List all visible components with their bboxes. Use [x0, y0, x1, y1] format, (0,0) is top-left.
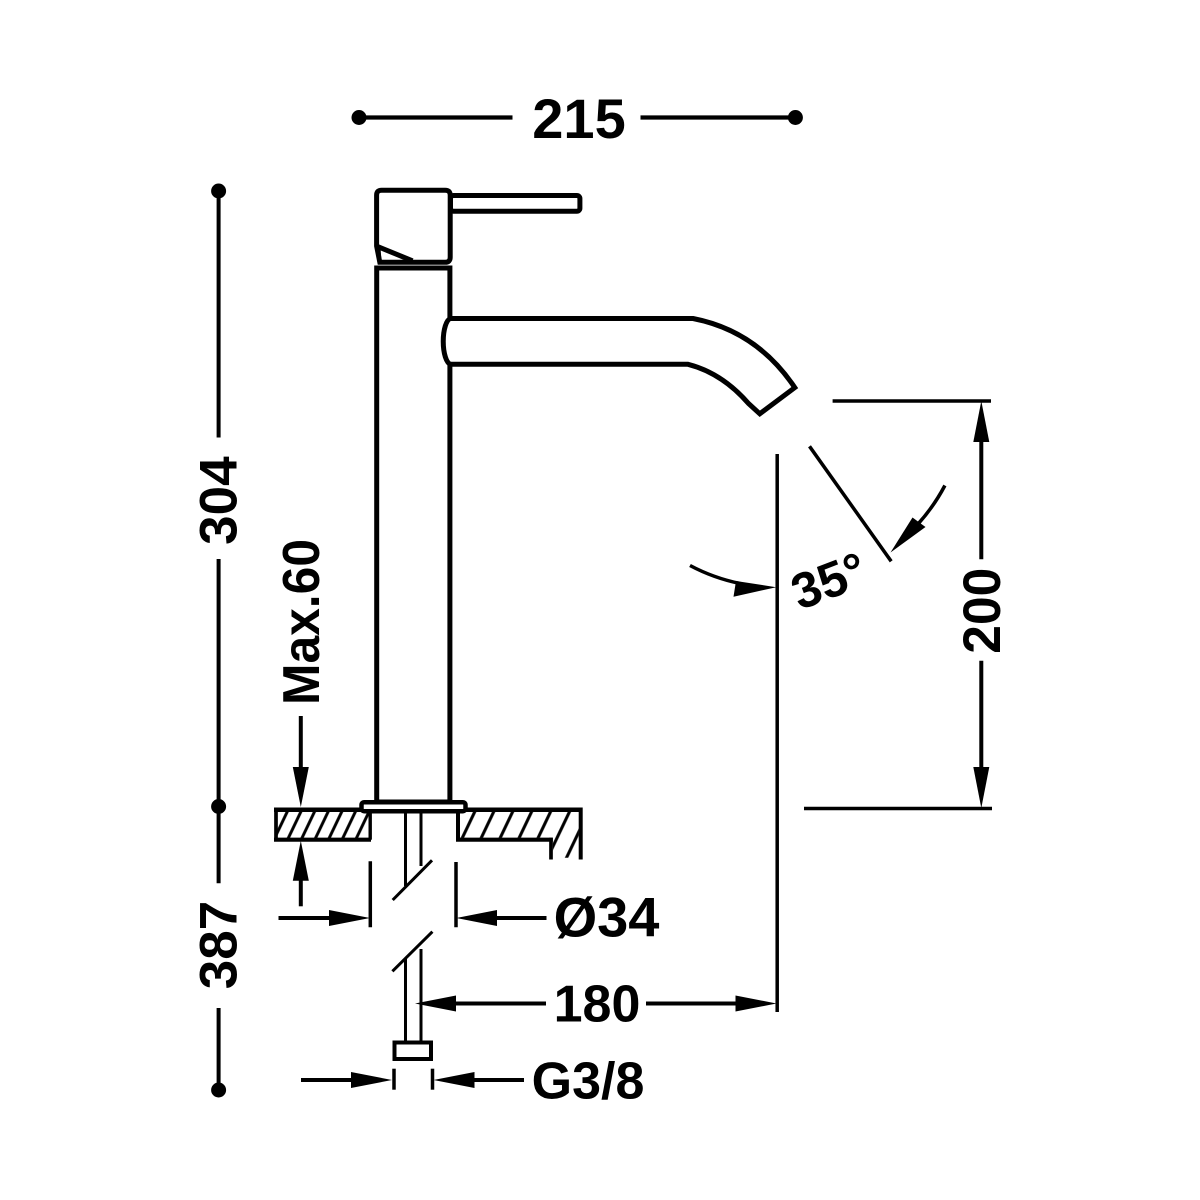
shank right line lower [420, 949, 423, 1042]
35 deg curved arrow right head [891, 518, 926, 553]
faucet body [377, 268, 450, 802]
countertop step left edge [549, 838, 553, 860]
countertop hatch right slab [460, 812, 579, 858]
shank left line lower [404, 959, 407, 1042]
base flange [362, 802, 466, 811]
dim 387 dot bottom [211, 1083, 226, 1098]
countertop right edge [579, 808, 583, 860]
dim 387 label [190, 901, 249, 989]
dim 304/387 dot middle [211, 799, 226, 814]
spout outlet vertical reference line [775, 454, 779, 1012]
dim O34 arrow left shaft [279, 916, 335, 920]
spout root arc [443, 319, 450, 365]
dim 304 dot top [211, 184, 226, 199]
35 deg curved arrow right arc [905, 486, 945, 538]
dim O34 arrow right shaft [494, 916, 547, 920]
svg-text:215: 215 [532, 87, 625, 150]
countertop hole right edge [456, 810, 460, 840]
dim 215 line left [359, 115, 513, 119]
35 deg slant reference line [810, 446, 892, 561]
dim 180 arrow left shaft [452, 1002, 546, 1006]
dim 200 label [953, 568, 1012, 654]
svg-text:Max.60: Max.60 [273, 539, 331, 705]
dim 304/387 vertical line seg2 [217, 559, 221, 883]
35 deg curved arrow left head [734, 581, 777, 597]
dim G3/8 arrow left head [351, 1072, 392, 1088]
dim 215 dot right [788, 110, 803, 125]
dim G3/8 extension tick left [392, 1069, 396, 1090]
dim 180 arrow right shaft [646, 1002, 739, 1006]
break slash lower [392, 932, 432, 972]
dim 304/387 vertical line seg1 [217, 191, 221, 438]
dim 200 line lower [979, 661, 983, 771]
countertop left slab bottom line [274, 838, 371, 842]
countertop right slab bottom line [456, 838, 553, 842]
dim 180 arrow right head [736, 996, 777, 1012]
svg-text:387: 387 [190, 901, 249, 989]
countertop level reference line [804, 807, 992, 811]
svg-text:304: 304 [190, 456, 249, 545]
break slash upper [393, 860, 432, 900]
dim O34 arrow left head [329, 910, 370, 926]
countertop hatch left slab [277, 812, 369, 839]
head small wedge line [379, 249, 380, 262]
dim 200 line upper [979, 438, 983, 559]
lever handle [451, 196, 580, 212]
dim 215 dot left [352, 110, 367, 125]
spout [450, 319, 795, 414]
dim O34 extension line left [369, 861, 373, 927]
shank right line upper [420, 812, 423, 866]
dim O34 extension line right [454, 862, 458, 927]
Max.60 arrow down head [293, 767, 309, 807]
35 deg curved arrow left arc [690, 566, 740, 584]
dim 304 label [190, 456, 249, 545]
head diagonal lever joint [376, 246, 413, 261]
dim G3/8 arrow right head [434, 1072, 475, 1088]
dim 200 arrow up head [973, 401, 989, 442]
svg-text:200: 200 [953, 568, 1012, 654]
svg-text:35°: 35° [784, 541, 875, 620]
faucet head block [377, 190, 451, 262]
countertop hole left edge [369, 810, 372, 840]
Max.60 label [273, 539, 331, 705]
Max.60 arrow up shaft [299, 876, 303, 906]
Max.60 arrow down shaft [299, 716, 303, 772]
dim 215 line right [641, 115, 796, 119]
dim G3/8 arrow right shaft [471, 1078, 524, 1082]
countertop top line [274, 807, 583, 812]
shank left line upper [404, 812, 407, 886]
Max.60 arrow up head [293, 841, 309, 881]
dim O34 arrow right head [456, 910, 497, 926]
svg-text:G3/8: G3/8 [532, 1052, 645, 1110]
dim 180 arrow left head [415, 996, 456, 1012]
countertop left edge [274, 810, 278, 840]
spout outlet horizontal reference line [833, 399, 991, 403]
supply nipple G3/8 [395, 1043, 432, 1060]
dim 304/387 vertical line seg3 [217, 1008, 221, 1090]
svg-text:180: 180 [554, 976, 641, 1034]
svg-text:Ø34: Ø34 [554, 885, 660, 948]
35 deg label [784, 541, 875, 620]
dim G3/8 extension tick right [431, 1069, 435, 1090]
dim 200 arrow down head [973, 767, 989, 808]
dim G3/8 arrow left shaft [301, 1078, 354, 1082]
